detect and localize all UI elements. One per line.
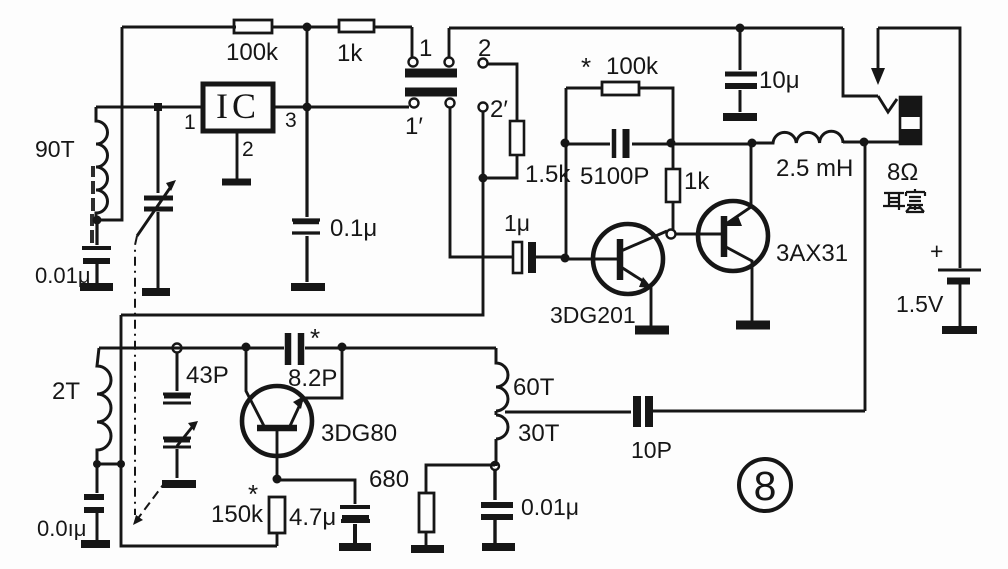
- node x864 y142: [860, 138, 869, 147]
- transformer bar bottom: [405, 88, 457, 97]
- svg-text:0.01μ: 0.01μ: [35, 263, 91, 288]
- jack plug arrow: [877, 28, 880, 70]
- transistor Q2 3AX31: [698, 201, 768, 271]
- ground under 3DG201: [635, 326, 669, 335]
- svg-text:8Ω: 8Ω: [887, 159, 918, 186]
- wire x865 down to 10P line: [864, 142, 867, 411]
- node tuning cap tap: [154, 103, 162, 111]
- node x752 y143: [748, 139, 757, 148]
- figure number circle 8: [739, 459, 791, 511]
- node base 3DG80: [273, 475, 282, 484]
- resistor 680: [426, 465, 495, 493]
- svg-text:10μ: 10μ: [759, 67, 800, 94]
- svg-text:43P: 43P: [186, 362, 229, 389]
- resistor 100k star body: [602, 82, 639, 95]
- node 8.2P right: [338, 343, 347, 352]
- capacitor 5100P plates: [612, 129, 617, 158]
- wire IC pin2: [236, 131, 239, 179]
- svg-text:3DG80: 3DG80: [321, 420, 397, 447]
- svg-text:10P: 10P: [631, 437, 672, 463]
- variable capacitor 43P: [163, 352, 191, 478]
- svg-text:1μ: 1μ: [504, 210, 530, 236]
- resistor 1.5k body: [510, 121, 524, 155]
- resistor 150k body: [269, 497, 285, 533]
- terminal 2': [479, 103, 488, 112]
- svg-text:1k: 1k: [684, 168, 710, 195]
- capacitor 0.01u bottom-left: [96, 464, 99, 540]
- svg-text:*: *: [581, 52, 591, 82]
- coil winding text smudge: [92, 166, 93, 243]
- svg-text:0.0ıμ: 0.0ıμ: [37, 516, 86, 541]
- svg-text:2.5 mH: 2.5 mH: [776, 155, 853, 182]
- wire vertical x307: [306, 27, 309, 107]
- node x565 y143: [561, 139, 570, 148]
- wire 100k left lead: [566, 87, 602, 90]
- variable capacitor C tuning top: [157, 107, 160, 288]
- svg-text:100k: 100k: [226, 39, 279, 66]
- svg-text:1.5k: 1.5k: [525, 161, 571, 188]
- node coil bottom junction: [93, 216, 102, 225]
- node x671 y143: [667, 139, 676, 148]
- capacitor 8.2P plates: [285, 333, 292, 365]
- svg-text:IC: IC: [216, 86, 260, 126]
- earphone 8ohm block: [900, 97, 921, 144]
- svg-text:150k: 150k: [211, 501, 264, 528]
- svg-text:0.01μ: 0.01μ: [521, 494, 579, 520]
- wire y107 from coil to IC: [96, 106, 202, 109]
- ground under tuning cap: [142, 288, 170, 296]
- inductor 2T coil: [97, 348, 111, 464]
- node collector junction open: [667, 230, 676, 239]
- ground under 3AX31: [736, 321, 770, 330]
- ground under 0.01u: [80, 283, 113, 291]
- wire feedback left vertical: [565, 88, 568, 258]
- node base 3DG201: [561, 254, 570, 263]
- wire coil tap to 10P: [505, 411, 631, 414]
- transformer bar top: [405, 69, 457, 78]
- ground under IC pin2: [222, 179, 251, 186]
- wire left drop x122: [97, 27, 122, 220]
- ground under 10u: [723, 113, 757, 121]
- label erh sai (CJK drawn): [883, 189, 925, 212]
- wire top rail right: [449, 27, 843, 30]
- svg-text:2: 2: [478, 35, 491, 62]
- inductor 90T coil: [96, 107, 108, 220]
- svg-text:8.2P: 8.2P: [288, 365, 337, 392]
- svg-text:4.7μ: 4.7μ: [289, 504, 336, 531]
- node y107 x307: [303, 103, 312, 112]
- svg-text:1: 1: [184, 111, 196, 134]
- capacitor 10P plates: [633, 396, 641, 427]
- node top rail x307: [303, 23, 312, 32]
- op IC U1 box: [203, 84, 273, 131]
- ground under 0.1u: [291, 283, 325, 291]
- svg-text:+: +: [930, 238, 943, 264]
- wire 1.5k bottom: [483, 155, 517, 178]
- wire 10P to x865: [651, 410, 865, 413]
- wire 2' down to y315: [121, 112, 483, 315]
- svg-text:90T: 90T: [35, 136, 75, 162]
- capacitor 0.1u: [292, 107, 320, 282]
- capacitor 0.01u bottom-mid: [493, 470, 496, 543]
- svg-text:*: *: [310, 323, 320, 353]
- dash-dot gang link: [135, 236, 137, 515]
- svg-text:2T: 2T: [52, 378, 80, 405]
- wire 2T bottom to rail: [97, 463, 121, 466]
- svg-text:2′: 2′: [490, 96, 508, 123]
- svg-text:2: 2: [242, 138, 254, 161]
- capacitor 1u plus plate: [513, 242, 522, 273]
- ground under 4.7u: [339, 543, 371, 551]
- terminal 2: [479, 59, 488, 68]
- node x121 y464: [117, 460, 125, 468]
- svg-text:8: 8: [754, 463, 777, 509]
- wire terminal 1' right down to 1u: [450, 108, 512, 257]
- transistor Q1 3DG201: [593, 224, 663, 294]
- wire 1u to base node: [536, 256, 565, 259]
- wire y144 main: [566, 143, 752, 146]
- svg-text:3: 3: [285, 109, 297, 132]
- capacitor 10u: [739, 28, 742, 112]
- ground under 680: [411, 545, 444, 553]
- node 10u top: [736, 24, 745, 33]
- node coil bottom open: [491, 462, 499, 470]
- wire top rail left: [122, 26, 412, 29]
- wire inductor to earphone: [843, 141, 900, 144]
- svg-text:3DG201: 3DG201: [550, 302, 636, 328]
- wire IC pin3 to node: [273, 106, 409, 109]
- svg-text:30T: 30T: [518, 420, 560, 447]
- wire 100k right lead: [639, 88, 673, 143]
- jack switch corner: [843, 28, 878, 96]
- terminal 1' circles: [410, 99, 419, 108]
- svg-text:3AX31: 3AX31: [776, 240, 848, 267]
- ground under 0.01u bottom-left: [81, 540, 110, 548]
- node 8.2P left: [242, 343, 251, 352]
- inductor 60T 30T coil: [496, 348, 508, 466]
- ground under 0.01u bottom-mid: [482, 543, 515, 551]
- svg-text:1k: 1k: [337, 40, 363, 67]
- capacitor 1u minus plate: [528, 242, 536, 273]
- inductor 2.5mH: [752, 131, 843, 143]
- wire base to 4.7u: [277, 480, 355, 504]
- svg-text:1′: 1′: [405, 113, 423, 140]
- svg-text:0.1μ: 0.1μ: [330, 215, 377, 242]
- resistor R 100k body: [234, 20, 272, 33]
- arrow 43P: [177, 426, 193, 446]
- wire terminal2 to 1.5k: [488, 64, 517, 121]
- ground under battery: [942, 326, 977, 334]
- node 1.5k junction: [479, 174, 488, 183]
- svg-text:1: 1: [419, 35, 432, 62]
- capacitor 0.01u top-left: [95, 220, 98, 283]
- resistor 1k second body: [672, 144, 675, 169]
- svg-text:5100P: 5100P: [580, 163, 649, 190]
- wire top rail to battery: [878, 28, 960, 268]
- transistor Q3 3DG80: [242, 386, 312, 456]
- node 43P top open: [173, 344, 182, 353]
- svg-text:680: 680: [369, 466, 409, 493]
- wire y348 oscillator rail: [99, 347, 496, 350]
- transformer plug terminal 1: [411, 27, 414, 57]
- ground under 43P: [162, 480, 196, 488]
- wire y315 left drop: [121, 315, 277, 546]
- node 2T bottom: [93, 460, 101, 468]
- resistor R 1k body: [339, 20, 374, 32]
- battery 1.5V: [938, 269, 981, 272]
- svg-text:100k: 100k: [606, 53, 659, 80]
- svg-text:60T: 60T: [513, 374, 555, 401]
- svg-text:1.5V: 1.5V: [896, 291, 944, 317]
- terminal 1 right circle: [445, 58, 454, 67]
- capacitor 4.7u: [340, 507, 370, 543]
- arrow of tuning cap: [137, 185, 172, 236]
